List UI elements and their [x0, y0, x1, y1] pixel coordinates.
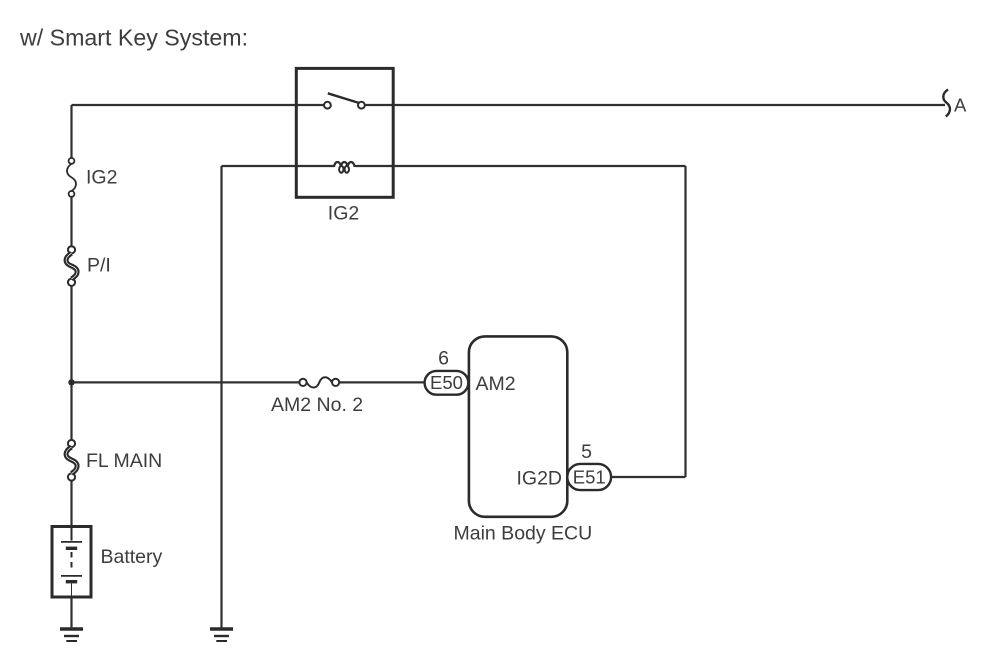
svg-text:5: 5	[581, 441, 592, 463]
svg-text:Battery: Battery	[101, 546, 163, 568]
svg-text:E50: E50	[430, 372, 463, 393]
svg-text:w/ Smart Key System:: w/ Smart Key System:	[19, 25, 248, 51]
svg-text:A: A	[954, 95, 967, 116]
svg-text:P/I: P/I	[87, 255, 111, 277]
svg-text:E51: E51	[573, 466, 606, 487]
svg-text:AM2: AM2	[476, 373, 516, 395]
svg-text:IG2: IG2	[86, 167, 117, 189]
svg-text:6: 6	[438, 348, 449, 370]
svg-text:Main Body ECU: Main Body ECU	[454, 523, 593, 545]
svg-text:AM2 No. 2: AM2 No. 2	[271, 394, 363, 416]
svg-text:FL MAIN: FL MAIN	[86, 450, 162, 472]
svg-text:IG2: IG2	[328, 203, 359, 225]
svg-text:IG2D: IG2D	[516, 468, 562, 490]
